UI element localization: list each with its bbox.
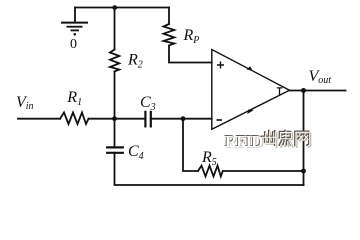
svg-text:0: 0 (70, 37, 77, 52)
node junction top (112, 5, 117, 10)
wire RP to op-amp plus input (169, 46, 212, 63)
node A junction (112, 116, 117, 121)
wire feedback vertical (303, 91, 305, 186)
ground stem wire (74, 8, 76, 23)
capacitor C3 (145, 112, 150, 127)
op-amp U1 (212, 50, 290, 130)
wire RP branch top (168, 8, 170, 25)
capacitor C4 (107, 147, 123, 152)
wire R1 to node A (89, 118, 146, 120)
resistor RP (164, 24, 175, 46)
node B junction (181, 116, 186, 121)
wire Vin input (18, 118, 60, 120)
resistor R2 (110, 50, 119, 72)
node output junction (301, 88, 306, 93)
node R5 junction (301, 169, 306, 174)
watermark RFID世界网 (224, 131, 311, 152)
wire R2 to node (114, 72, 116, 120)
resistor R5 (198, 166, 223, 177)
wire C3 to op-amp minus input (151, 118, 212, 120)
wire C4 to bottom rail (115, 153, 304, 185)
ground (61, 23, 88, 31)
wire C4 branch (114, 119, 116, 147)
op-amp plus sign (217, 62, 224, 69)
wire R2 branch top (114, 8, 116, 50)
op-amp minus sign (217, 119, 223, 121)
wire R5 to output node (223, 170, 304, 172)
resistor R1 (60, 113, 89, 125)
T mark at op-amp tip (277, 88, 283, 96)
arrow on bottom edge (247, 109, 253, 114)
arrow on top edge (247, 66, 253, 70)
wire top horizontal (75, 7, 169, 9)
wire output (290, 90, 346, 92)
wire node B down to R5 (183, 119, 198, 171)
svg-text:RFID: RFID (225, 132, 263, 151)
